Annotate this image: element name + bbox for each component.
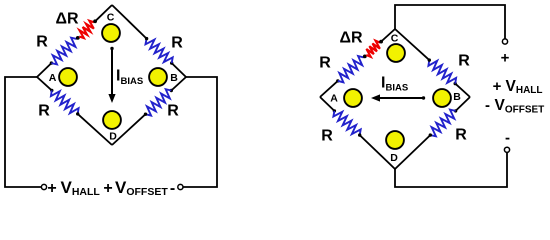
node D contact left bridge	[103, 111, 121, 129]
wire	[395, 135, 430, 169]
wire	[112, 5, 147, 39]
svg-text:R: R	[36, 34, 48, 51]
svg-text:C: C	[107, 11, 115, 23]
wire D to bottom terminal	[395, 152, 507, 187]
resistor R right-bridge arm A-D	[333, 109, 362, 137]
svg-text:+: +	[47, 180, 56, 197]
wire	[37, 77, 52, 90]
node D contact right bridge	[386, 131, 404, 149]
wire	[172, 63, 186, 77]
wire	[320, 81, 338, 97]
node C contact right bridge	[387, 44, 405, 62]
resistor R right-bridge arm B-D	[429, 109, 458, 137]
svg-text:R: R	[167, 103, 179, 120]
svg-text:R: R	[455, 127, 467, 144]
svg-text:A: A	[330, 93, 338, 105]
wire	[320, 97, 334, 111]
wire C to top terminal	[395, 5, 505, 39]
wire B to right rail	[183, 77, 217, 187]
svg-text:-: -	[170, 180, 175, 197]
svg-text:+: +	[493, 78, 502, 95]
wire	[95, 5, 112, 21]
svg-text:B: B	[453, 91, 461, 103]
svg-text:R: R	[458, 53, 470, 70]
svg-text:-: -	[485, 97, 490, 114]
resistor deltaR left-bridge	[79, 19, 97, 38]
wire	[381, 29, 395, 42]
wire IBIAS arrow right bridge	[371, 94, 425, 101]
svg-text:R: R	[171, 35, 183, 52]
svg-text:R: R	[38, 103, 50, 120]
wire	[455, 84, 470, 97]
resistor R left-bridge arm A-C	[50, 38, 77, 65]
wire	[171, 77, 186, 91]
node C contact left bridge	[102, 24, 120, 42]
terminal + output left bridge	[41, 184, 46, 189]
resistor R left-bridge arm B-D	[144, 89, 173, 116]
svg-text:+: +	[103, 180, 112, 197]
resistor R right-bridge arm C-B	[428, 58, 457, 85]
wire	[78, 114, 112, 145]
wire IBIAS arrow left bridge	[108, 47, 115, 103]
resistor R right-bridge arm A-C	[336, 56, 364, 83]
svg-text:+: +	[501, 50, 510, 67]
node A contact right bridge	[344, 89, 362, 107]
resistor deltaR right-bridge	[366, 40, 383, 57]
terminal - right bridge	[504, 147, 509, 152]
node junction	[76, 36, 80, 40]
svg-text:C: C	[391, 33, 399, 45]
terminal + right bridge	[502, 39, 507, 44]
node B contact left bridge	[149, 68, 167, 86]
svg-text:-: -	[505, 130, 510, 147]
svg-text:D: D	[390, 152, 398, 164]
node junction	[363, 55, 367, 59]
svg-text:D: D	[109, 131, 117, 143]
wire	[360, 135, 395, 169]
wire	[37, 63, 51, 77]
wire	[112, 114, 146, 145]
svg-text:ΔR: ΔR	[339, 30, 363, 47]
node A contact left bridge	[59, 68, 77, 86]
svg-text:B: B	[170, 72, 178, 84]
wire	[456, 97, 470, 111]
wire A to left rail	[5, 77, 41, 187]
svg-text:ΔR: ΔR	[55, 11, 79, 28]
svg-text:A: A	[49, 72, 57, 84]
resistor R left-bridge arm A-D	[50, 89, 79, 116]
resistor R left-bridge arm C-B	[145, 37, 173, 65]
svg-text:R: R	[319, 55, 331, 72]
svg-text:R: R	[321, 128, 333, 145]
node B contact right bridge	[433, 89, 451, 107]
terminal - output left bridge	[178, 184, 183, 189]
wire	[395, 29, 429, 60]
